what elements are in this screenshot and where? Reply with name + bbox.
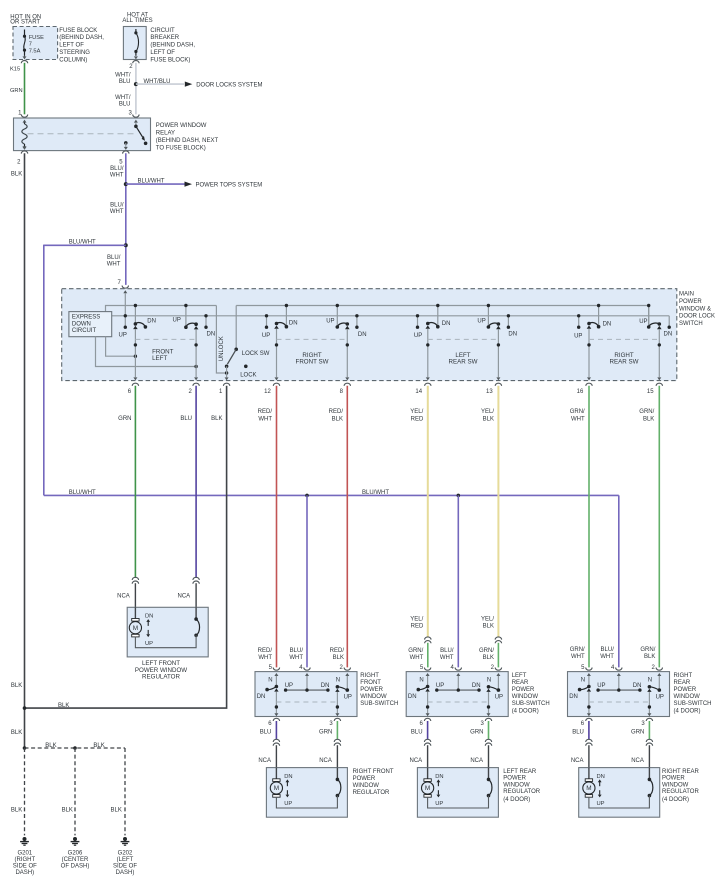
svg-text:G206: G206 [68, 850, 83, 856]
circuit breaker symbol [134, 29, 138, 56]
svg-text:SWITCH: SWITCH [679, 321, 703, 327]
relay pin 2 exit [17, 147, 28, 166]
wire BLU right rear pin6 to splice [588, 721, 590, 739]
wire BLU right front pin6 to splice [275, 721, 277, 739]
svg-text:BLK: BLK [11, 808, 22, 814]
fuse block exit arrow and connector [21, 56, 27, 64]
wire right front BLU splice to regulator [275, 745, 277, 767]
svg-text:13: 13 [486, 389, 493, 395]
splice YEL/RED to GRN/WHT [425, 637, 431, 640]
right rear regulator direction arrows [597, 774, 605, 807]
ground G206 [71, 837, 80, 845]
svg-text:(LEFT: (LEFT [117, 857, 134, 863]
svg-text:BLK: BLK [483, 624, 494, 630]
svg-text:DN: DN [508, 331, 517, 337]
right rear power window sub-switch box [568, 672, 670, 717]
svg-text:DN: DN [358, 332, 367, 338]
svg-text:BLU: BLU [180, 416, 192, 422]
right front sub-switch pins 5 4 2 [269, 665, 351, 671]
svg-text:OF DASH): OF DASH) [61, 864, 90, 870]
svg-text:DOOR LOCK: DOOR LOCK [679, 314, 715, 320]
svg-text:2: 2 [129, 64, 133, 70]
ground G201 [20, 837, 29, 845]
svg-text:2: 2 [188, 389, 192, 395]
svg-text:BLU/: BLU/ [110, 166, 124, 172]
svg-text:DASH): DASH) [116, 870, 135, 876]
svg-text:BLK: BLK [45, 743, 56, 749]
right rear sub-switch contact bar [596, 683, 641, 692]
svg-text:(CENTER: (CENTER [62, 857, 89, 863]
svg-text:RED/: RED/ [258, 409, 273, 415]
junction at G206 branch [73, 746, 77, 750]
left rear sub-switch contact bar [435, 683, 481, 692]
svg-text:DOWN: DOWN [72, 321, 91, 327]
left rear regulator motor M [422, 768, 434, 798]
svg-text:BLK: BLK [11, 730, 22, 736]
junction BLU/WHT left distribution branch [124, 243, 128, 247]
splice NCA left rear BLU [424, 739, 430, 742]
svg-text:15: 15 [647, 389, 654, 395]
main switch pin 15 [647, 383, 663, 395]
svg-text:BLK: BLK [333, 655, 344, 661]
svg-text:DN: DN [289, 321, 298, 327]
right front sub-switch mechanical link [276, 701, 337, 703]
fuse block (dashed box) [13, 27, 58, 60]
junction WHT/BLU to door locks [134, 82, 138, 86]
right rear sub-switch pins 5 4 2 [581, 665, 662, 671]
svg-text:DN: DN [597, 774, 605, 780]
main switch pin 7 [117, 280, 128, 288]
svg-text:6: 6 [581, 721, 585, 727]
svg-text:UP: UP [344, 695, 352, 701]
relay switch (pin3 to pin5) [124, 120, 147, 146]
svg-text:4: 4 [611, 665, 615, 671]
svg-text:RELAY: RELAY [156, 131, 175, 137]
relay coil (pin1 to pin2) [22, 120, 27, 150]
svg-text:NCA: NCA [319, 758, 332, 764]
wire BLU/WHT distribution horizontal [44, 494, 619, 496]
svg-text:REAR: REAR [512, 680, 529, 686]
LEFT REAR SW UP companion contact [416, 314, 419, 329]
bus1 left end down to lock output [216, 306, 228, 375]
svg-text:UP: UP [656, 695, 664, 701]
right rear power window regulator box [579, 768, 660, 818]
label G202 (LEFT SIDE OF DASH) [113, 850, 137, 876]
svg-text:4: 4 [299, 665, 303, 671]
svg-text:GRN/: GRN/ [570, 409, 585, 415]
svg-text:WINDOW: WINDOW [662, 782, 689, 788]
wire BLU pin2 to splice [195, 386, 197, 578]
svg-text:UP: UP [597, 801, 605, 807]
svg-text:YEL/: YEL/ [410, 617, 423, 623]
LEFT REAR SW DN switch [426, 304, 440, 329]
label LEFT REAR SW [449, 352, 478, 365]
svg-text:WINDOW: WINDOW [353, 783, 380, 789]
wire left rear GRN splice to regulator [488, 745, 490, 767]
right front power window sub-switch box [255, 672, 357, 717]
svg-text:OR START: OR START [10, 20, 40, 26]
svg-text:POWER: POWER [662, 776, 685, 782]
svg-text:GRN/: GRN/ [479, 648, 494, 654]
front-left DN switch [133, 304, 147, 329]
wire RED/BLK pin8 to sub-switch [346, 386, 348, 668]
svg-text:BLU/: BLU/ [290, 648, 304, 654]
svg-text:2: 2 [340, 665, 344, 671]
svg-text:WHT: WHT [258, 655, 272, 661]
svg-text:POWER WINDOW: POWER WINDOW [156, 123, 207, 129]
svg-text:BLK: BLK [644, 654, 655, 660]
svg-text:BLK: BLK [58, 703, 69, 709]
wire GRN right rear pin3 to splice [648, 721, 650, 739]
splice NCA right rear GRN [646, 739, 652, 742]
svg-text:N: N [487, 678, 491, 684]
RIGHT REAR SW UP companion contact [577, 314, 580, 329]
pin7 feed line inside box / UP contact front-left [123, 290, 127, 329]
main switch pin 14 [415, 383, 431, 395]
svg-text:2: 2 [652, 665, 656, 671]
svg-text:SUB-SWITCH: SUB-SWITCH [360, 701, 398, 707]
svg-text:BLU/WHT: BLU/WHT [138, 179, 165, 185]
right front regulator motor M [270, 768, 282, 798]
junction BLK ground split [23, 746, 27, 750]
svg-text:NCA: NCA [178, 594, 191, 600]
svg-text:GRN: GRN [631, 730, 644, 736]
svg-text:WHT: WHT [410, 655, 424, 661]
bus1 right end corner to right-rear UP stub [648, 306, 650, 328]
svg-text:3: 3 [329, 721, 333, 727]
right rear sub-switch entry arrows [587, 673, 661, 690]
svg-text:BLU/: BLU/ [440, 648, 454, 654]
svg-text:NCA: NCA [631, 758, 644, 764]
left rear power window regulator box [417, 768, 498, 818]
wire BLU/WHT branch left [44, 244, 126, 246]
splice NCA on GRN [132, 577, 138, 580]
svg-text:DN: DN [603, 321, 612, 327]
svg-text:WINDOW: WINDOW [674, 694, 701, 700]
junction BLU/WHT power tops branch [124, 182, 128, 186]
svg-text:NCA: NCA [571, 758, 584, 764]
svg-text:REGULATOR: REGULATOR [142, 674, 180, 681]
wire right front GRN splice to regulator [336, 745, 338, 767]
svg-text:6: 6 [268, 721, 272, 727]
bus1 right segment [236, 305, 649, 307]
svg-text:SUB-SWITCH: SUB-SWITCH [674, 701, 712, 707]
svg-text:FUSE BLOCK): FUSE BLOCK) [150, 57, 190, 63]
wire YEL/RED pin14 to splice [427, 386, 429, 638]
svg-text:BLK: BLK [11, 171, 22, 177]
svg-text:BLU/WHT: BLU/WHT [69, 240, 96, 246]
svg-text:REGULATOR: REGULATOR [353, 790, 390, 796]
svg-text:WHT/: WHT/ [115, 95, 131, 101]
wire GRN pin6 to splice [134, 386, 136, 578]
main switch pin 16 [577, 383, 593, 395]
svg-text:FUSE BLOCK: FUSE BLOCK [59, 28, 97, 34]
svg-text:UNLOCK: UNLOCK [219, 336, 225, 361]
svg-text:BLU/WHT: BLU/WHT [69, 490, 96, 496]
svg-text:COLUMN): COLUMN) [59, 57, 87, 63]
svg-text:UP: UP [436, 683, 444, 689]
svg-text:STEERING: STEERING [59, 50, 90, 56]
ground G202 [121, 837, 130, 845]
svg-text:YEL/: YEL/ [410, 409, 423, 415]
junction BLU/WHT drop right front [305, 494, 309, 498]
svg-text:GRN: GRN [118, 416, 131, 422]
svg-text:UP: UP [285, 683, 293, 689]
svg-text:8: 8 [340, 389, 344, 395]
svg-text:TO FUSE BLOCK): TO FUSE BLOCK) [156, 145, 206, 151]
splice NCA right front BLU [273, 739, 279, 742]
svg-text:REAR SW: REAR SW [610, 358, 639, 365]
wire BLU/WHT drop to right front sub-switch [306, 495, 308, 667]
svg-text:RED/: RED/ [330, 648, 345, 654]
relay pin 5 exit [119, 143, 129, 166]
svg-text:BLK: BLK [332, 416, 343, 422]
svg-text:7.5A: 7.5A [29, 49, 41, 55]
svg-text:LEFT OF: LEFT OF [59, 43, 84, 49]
svg-text:RIGHT REAR: RIGHT REAR [662, 769, 700, 775]
svg-text:DN: DN [435, 774, 443, 780]
svg-text:WHT/BLU: WHT/BLU [144, 79, 171, 85]
label G201 (RIGHT SIDE OF DASH) [13, 850, 37, 876]
svg-text:POWER: POWER [503, 776, 526, 782]
svg-text:M: M [133, 625, 138, 632]
svg-text:LEFT: LEFT [152, 355, 167, 362]
right front sub-switch right (window) switch [335, 678, 352, 701]
svg-text:EXPRESS: EXPRESS [72, 314, 100, 320]
right rear sub-switch right (window) switch [647, 678, 664, 701]
LEFT REAR SW mechanical link [428, 338, 499, 340]
svg-text:GRN/: GRN/ [639, 409, 654, 415]
svg-text:WHT: WHT [289, 655, 303, 661]
splice NCA right rear BLU [586, 739, 592, 742]
main switch pin 13 [486, 383, 502, 395]
svg-text:BLK: BLK [483, 416, 494, 422]
RIGHT FRONT SW UP switch [336, 304, 350, 329]
svg-text:2: 2 [491, 665, 495, 671]
right front sub-switch pins 6 3 [268, 718, 340, 727]
express down circuit box [69, 312, 112, 337]
right rear regulator caption [662, 769, 700, 803]
svg-text:UP: UP [326, 319, 334, 325]
svg-text:SIDE OF: SIDE OF [13, 864, 37, 870]
svg-text:DN: DN [569, 694, 578, 700]
left front regulator crank arc [194, 607, 199, 637]
svg-text:WINDOW &: WINDOW & [679, 306, 711, 312]
right front regulator internal return wiring [276, 796, 337, 808]
RIGHT FRONT SW mechanical link [277, 338, 348, 340]
svg-text:LOCK: LOCK [240, 372, 256, 378]
label G206 (CENTER OF DASH) [61, 850, 90, 869]
LEFT REAR SW DN output wire [426, 329, 430, 381]
front-left UP output wire to pin2 [194, 329, 198, 380]
svg-text:DN: DN [472, 683, 481, 689]
RIGHT REAR SW UP switch [647, 304, 662, 329]
svg-text:REAR: REAR [674, 680, 691, 686]
svg-text:DOOR LOCKS SYSTEM: DOOR LOCKS SYSTEM [196, 83, 262, 89]
svg-text:RIGHT: RIGHT [360, 673, 379, 679]
RIGHT FRONT SW DN output wire [275, 329, 279, 381]
express output to front-left DN wire [106, 337, 137, 358]
left rear regulator direction arrows [435, 774, 443, 807]
svg-text:RED/: RED/ [329, 409, 344, 415]
svg-text:POWER: POWER [674, 687, 697, 693]
left front regulator direction arrows [145, 614, 153, 647]
right front sub-switch output wires [274, 692, 339, 716]
relay pin 1 [18, 110, 28, 117]
label FRONT LEFT [152, 348, 174, 362]
svg-text:RED: RED [411, 416, 424, 422]
svg-text:2: 2 [17, 160, 21, 166]
left front regulator caption [135, 660, 187, 681]
svg-text:WHT: WHT [107, 262, 121, 268]
RIGHT REAR SW DN switch [587, 304, 601, 329]
label WHT/BLU (lower) [115, 95, 131, 108]
svg-text:FRONT: FRONT [360, 680, 381, 686]
power window relay box [14, 118, 151, 151]
svg-text:UP: UP [262, 333, 270, 339]
left rear regulator caption [503, 769, 540, 803]
svg-text:(BEHIND DASH,: (BEHIND DASH, [59, 35, 104, 41]
wire RED/WHT pin12 to sub-switch [276, 386, 278, 668]
svg-text:BLK: BLK [211, 416, 222, 422]
right front sub-switch caption [360, 673, 398, 707]
label RIGHT FRONT SW [296, 352, 329, 365]
svg-text:WHT: WHT [600, 654, 614, 660]
svg-text:FUSE: FUSE [29, 35, 44, 41]
svg-text:BLU: BLU [119, 102, 131, 108]
svg-text:BLU: BLU [119, 79, 131, 85]
front-left UP switch [184, 304, 198, 330]
arrow to DOOR LOCKS SYSTEM [185, 82, 193, 87]
main switch pin 12 [264, 383, 280, 395]
label RIGHT REAR SW [610, 352, 639, 365]
svg-text:(BEHIND DASH,: (BEHIND DASH, [150, 43, 195, 49]
svg-text:BLK: BLK [483, 655, 494, 661]
svg-text:WHT: WHT [571, 654, 585, 660]
label HOT AT ALL TIMES [122, 12, 152, 23]
wire BLU/WHT branch to power tops system [126, 183, 185, 185]
wire GRN left rear pin3 to splice [488, 721, 490, 739]
svg-text:N: N [581, 678, 585, 684]
wire GRN right front pin3 to splice [336, 721, 338, 739]
left rear regulator internal return wiring [428, 796, 489, 808]
wire BLU/WHT left vertical down [43, 245, 45, 496]
relay pin 3 [128, 110, 139, 117]
splice NCA on BLU [193, 577, 199, 580]
svg-text:BLU: BLU [260, 730, 272, 736]
circuit breaker exit arrow and connector, pin 2 [129, 56, 139, 70]
svg-text:BLU/: BLU/ [107, 255, 121, 261]
svg-text:BLU: BLU [411, 730, 423, 736]
svg-text:UP: UP [477, 319, 485, 325]
wire YEL/BLK pin13 to splice [497, 386, 499, 638]
svg-text:14: 14 [415, 389, 422, 395]
svg-text:UP: UP [284, 801, 292, 807]
label BLU/WHT (below relay) [110, 166, 124, 179]
svg-text:CIRCUIT: CIRCUIT [150, 28, 175, 34]
lock contact dot [244, 365, 248, 369]
svg-text:GRN: GRN [470, 730, 483, 736]
svg-text:POWER: POWER [679, 299, 702, 305]
wire BLU/WHT relay pin5 down to main switch pin7 [125, 153, 127, 285]
RIGHT FRONT SW DN switch [274, 304, 288, 329]
svg-text:GRN/: GRN/ [570, 647, 585, 653]
svg-text:YEL/: YEL/ [481, 617, 494, 623]
svg-text:DN: DN [408, 694, 417, 700]
svg-text:N: N [336, 678, 340, 684]
svg-text:LEFT OF: LEFT OF [150, 50, 175, 56]
wire WHT/BLU breaker to relay pin3 [135, 63, 137, 115]
svg-text:RED: RED [411, 624, 424, 630]
svg-text:1: 1 [219, 389, 223, 395]
svg-text:N: N [268, 678, 272, 684]
front-left DN companion contact [204, 314, 207, 329]
svg-text:REAR SW: REAR SW [449, 358, 478, 365]
svg-text:DASH): DASH) [15, 870, 34, 876]
svg-text:7: 7 [117, 280, 121, 286]
svg-text:RIGHT FRONT: RIGHT FRONT [353, 769, 394, 775]
relay actuation dashed line [28, 133, 136, 135]
svg-text:DN: DN [145, 614, 153, 620]
right rear sub-switch left (window) switch [569, 678, 591, 700]
label BLU/WHT (mid) [110, 203, 124, 216]
svg-text:WHT: WHT [571, 416, 585, 422]
right front sub-switch left (window) switch [257, 678, 279, 700]
svg-text:6: 6 [419, 721, 423, 727]
svg-text:3: 3 [480, 721, 484, 727]
svg-text:DN: DN [664, 331, 673, 337]
svg-text:GRN/: GRN/ [408, 648, 423, 654]
svg-text:UP: UP [495, 695, 503, 701]
svg-text:K15: K15 [10, 66, 20, 72]
svg-text:G202: G202 [118, 850, 133, 856]
right rear sub-switch output wires [587, 692, 652, 716]
svg-text:5: 5 [420, 665, 424, 671]
svg-text:DN: DN [284, 774, 292, 780]
left rear sub-switch pins 6 3 [419, 718, 491, 727]
svg-text:M: M [586, 785, 591, 792]
LEFT REAR SW UP output wire [496, 329, 500, 380]
svg-text:RED/: RED/ [258, 648, 273, 654]
svg-text:16: 16 [577, 389, 584, 395]
svg-text:5: 5 [581, 665, 585, 671]
svg-text:LOCK SW: LOCK SW [242, 351, 270, 357]
RIGHT FRONT SW DN companion contact [355, 314, 358, 329]
wire BLU/WHT drop to right rear sub-switch [618, 495, 620, 667]
label WHT/BLU (upper) [115, 72, 131, 85]
svg-text:LEFT: LEFT [512, 673, 527, 679]
left rear sub-switch pins 5 4 2 [420, 665, 502, 671]
fuse value labels [29, 35, 44, 55]
right rear sub-switch caption [674, 673, 712, 715]
svg-text:UP: UP [597, 683, 605, 689]
svg-text:BREAKER: BREAKER [150, 35, 179, 41]
svg-text:POWER: POWER [353, 776, 376, 782]
main switch pin 8 [340, 383, 351, 395]
right rear regulator internal return wiring [589, 796, 650, 808]
svg-text:7: 7 [29, 42, 32, 48]
wire GRN/BLK pin15 to sub-switch [658, 386, 660, 668]
wire right rear GRN splice to regulator [648, 745, 650, 767]
svg-text:BLU: BLU [572, 730, 584, 736]
svg-text:NCA: NCA [470, 758, 483, 764]
right front sub-switch contact bar [284, 683, 330, 692]
wire BLU left rear pin6 to splice [427, 721, 429, 739]
svg-text:6: 6 [128, 389, 132, 395]
bus1 left segment (ground bus) [106, 306, 217, 312]
main switch pin 1 [219, 383, 230, 395]
splice NCA left rear GRN [485, 739, 491, 742]
